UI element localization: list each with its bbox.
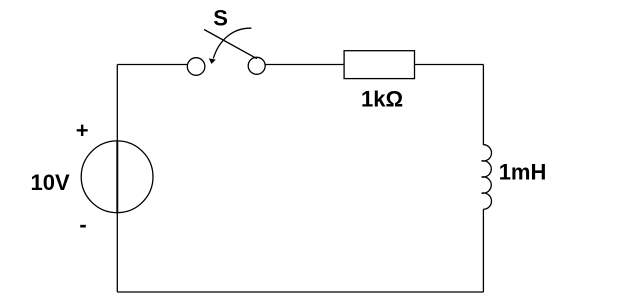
voltage source V1 circle [81,141,153,213]
wire bottom [117,291,483,293]
wire top-left segment [117,64,187,66]
inductor L1 coil [482,145,492,210]
svg-text:10V: 10V [31,170,70,195]
switch S left contact circle [187,58,205,76]
svg-text:1mH: 1mH [499,159,547,184]
svg-text:+: + [76,118,89,143]
wire left vertical [116,65,118,293]
switch S closing arrow arc [213,28,251,58]
switch S right contact circle [248,57,265,74]
voltage source V1 internal vertical line [116,141,118,213]
switch S arrowhead [209,58,216,64]
resistor R1 body [344,51,414,79]
svg-text:S: S [213,6,228,31]
wire right vertical lower [482,209,484,292]
svg-text:-: - [79,212,86,237]
wire resistor-to-corner segment [415,64,484,66]
wire switch-to-resistor segment [265,64,344,66]
wire right vertical upper [482,65,484,146]
svg-text:1kΩ: 1kΩ [361,86,403,111]
switch S blade [204,30,257,59]
